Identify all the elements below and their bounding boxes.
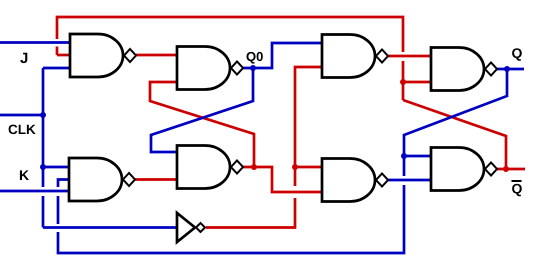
wire U4 output to U3 bottom input bbox=[135, 178, 177, 181]
nand-gate U3 bbox=[177, 146, 230, 189]
wire Qbar feedback into U1 middle input bbox=[57, 54, 70, 57]
label Q0 bbox=[247, 52, 263, 64]
bubble U7 bbox=[485, 63, 497, 76]
wire Q output line bbox=[497, 68, 524, 71]
node Qbar junction bbox=[503, 166, 509, 172]
wire inverted clock to U6 top input bbox=[295, 166, 322, 169]
wire U5 output to U7 top input bbox=[388, 55, 431, 58]
bubble U3 bbox=[231, 161, 243, 174]
wire Qbar diagonal to slave cross bbox=[403, 100, 506, 169]
bubble U9 bbox=[196, 223, 205, 232]
inverter U9 bbox=[177, 213, 195, 242]
nand-gate U8 bbox=[431, 148, 484, 191]
wire J input line bbox=[0, 41, 70, 44]
node CLK-U4 junction bbox=[40, 164, 46, 170]
wire Q feedback: down, diagonal, vertical bbox=[58, 69, 507, 253]
label J bbox=[20, 53, 27, 63]
node master Qbar junction bbox=[251, 164, 257, 170]
wire U6 output to U8 bottom input bbox=[388, 179, 431, 182]
node Qbar-U7 junction bbox=[400, 79, 406, 85]
node CLK junction bbox=[40, 112, 46, 118]
label CLK bbox=[9, 125, 36, 135]
bubble U8 bbox=[485, 163, 497, 176]
nand-gate U1 bbox=[70, 34, 123, 77]
wire CLK to inverter input bbox=[43, 226, 177, 229]
wire CLK to U4 top input bbox=[43, 166, 69, 169]
bubble U1 bbox=[124, 49, 136, 62]
wire Qbar output line bbox=[497, 168, 525, 171]
wire K input line bbox=[0, 190, 69, 193]
wire U1 output to U2 top input bbox=[136, 54, 177, 57]
bubble U2 bbox=[231, 62, 243, 75]
wire Qbar feedback top line bbox=[57, 17, 403, 100]
nand-gate U5 bbox=[322, 35, 375, 78]
wire master Q0 net: U2 out to U5 top input bbox=[243, 43, 322, 68]
wire master Qbar net: U3 out to U6 bottom input bbox=[243, 167, 322, 192]
bubble U5 bbox=[376, 50, 388, 63]
nand-gate U2 bbox=[177, 47, 230, 90]
bubble U4 bbox=[123, 173, 135, 186]
nand-gate U4 bbox=[69, 158, 122, 201]
node Q-U8 junction bbox=[401, 153, 407, 159]
wire CLK to U1 bottom input bbox=[43, 67, 70, 70]
wire Q feedback to U8 top input bbox=[404, 155, 431, 158]
node Q0 junction bbox=[250, 65, 256, 71]
label Qbar bbox=[512, 184, 522, 197]
label Q bbox=[512, 48, 522, 61]
wire inverted clock from inverter output bbox=[206, 67, 322, 228]
wire CLK input line bbox=[0, 114, 43, 117]
wire CLK vertical bus bbox=[42, 68, 45, 228]
nand-gate U7 bbox=[431, 48, 484, 91]
wire master Q0 cross diagonal to U3 top input bbox=[151, 68, 253, 152]
wire master Qbar cross diagonal to U2 bottom input bbox=[150, 82, 254, 167]
wire Qbar junction to U7 bottom input bbox=[403, 81, 431, 84]
node inverted clock junction bbox=[292, 164, 298, 170]
label K bbox=[20, 170, 29, 180]
bubble U6 bbox=[376, 174, 388, 187]
label Qbar overline bbox=[512, 180, 522, 182]
node Q junction bbox=[504, 66, 510, 72]
nand-gate U6 bbox=[322, 159, 375, 202]
